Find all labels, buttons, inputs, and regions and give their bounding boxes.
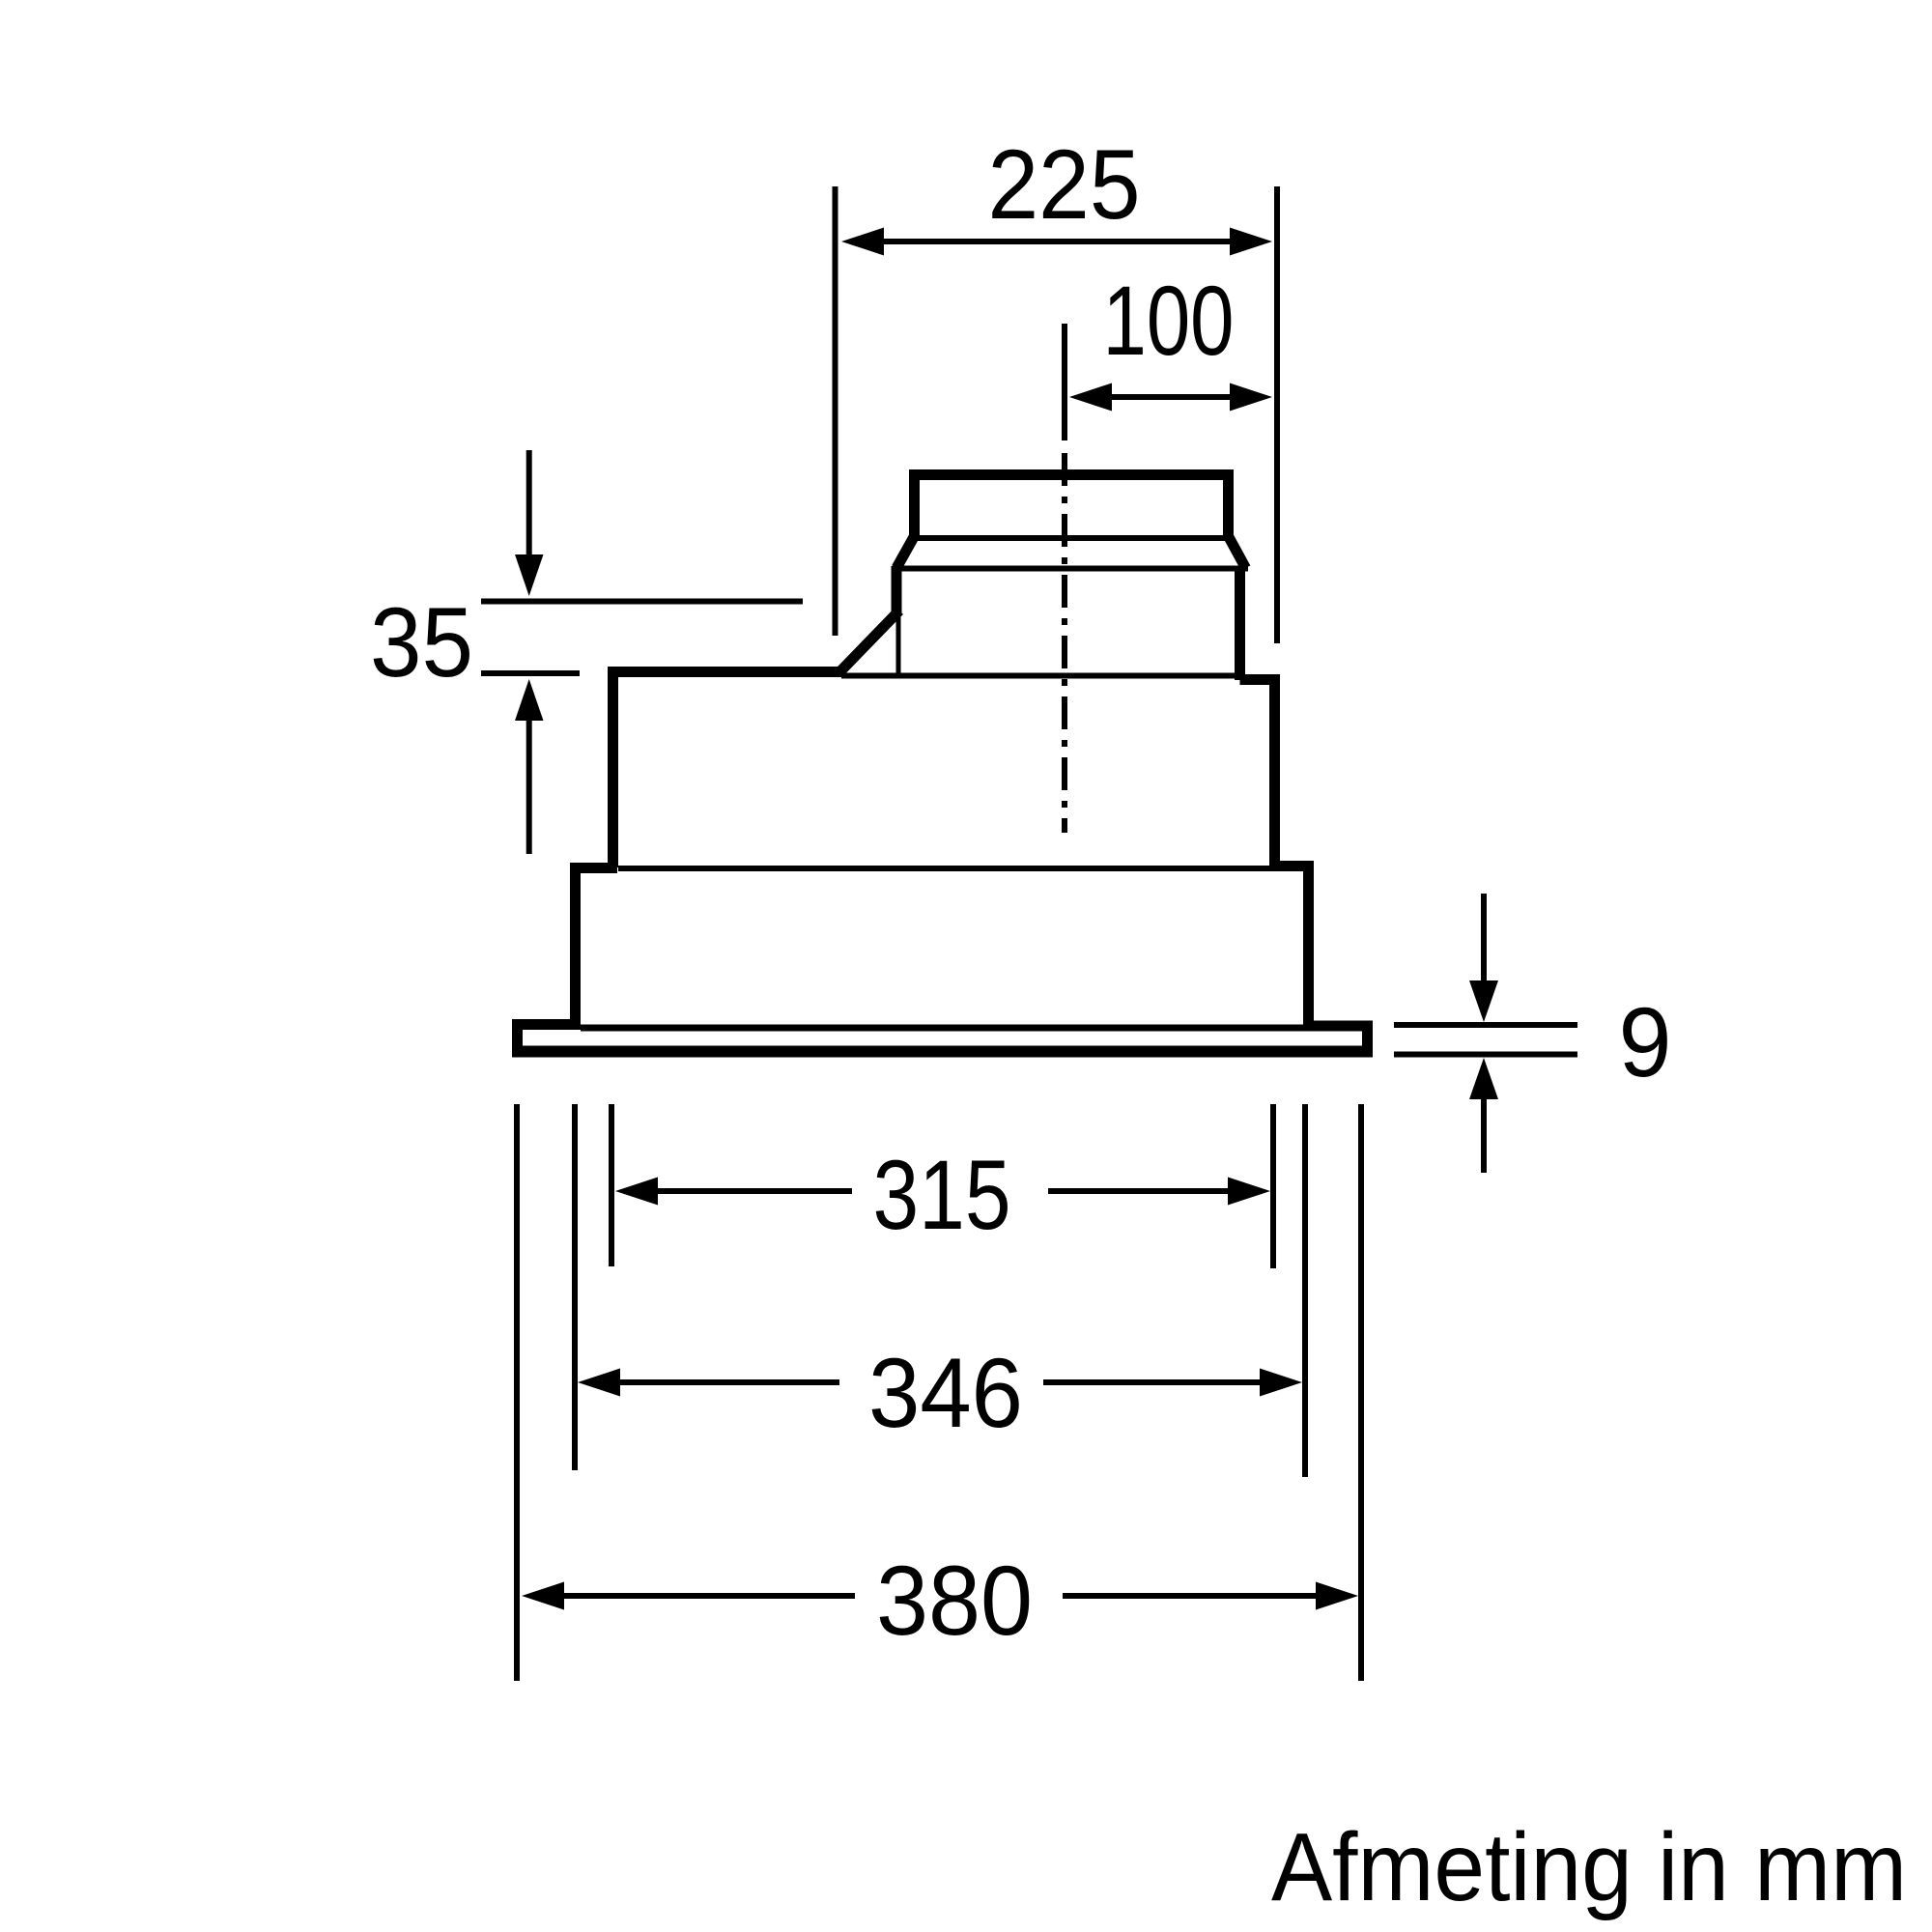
315 left extension line [609,1104,614,1266]
plate left cap and top left [518,1025,582,1052]
duct base right edge [1235,566,1245,680]
35 down arrowhead [515,554,544,596]
315 dimension left segment [652,1188,852,1194]
svg-text:35: 35 [370,587,473,697]
svg-text:315: 315 [873,1140,1011,1250]
centerline solid upper segment [1062,324,1067,440]
315 right arrowhead [1228,1178,1270,1206]
380 right extension line [1358,1104,1364,1681]
380 left arrowhead [522,1582,564,1610]
svg-text:100: 100 [1103,266,1235,376]
svg-text:380: 380 [876,1546,1033,1656]
plate bottom line [512,1046,1373,1058]
346 right extension line [1302,1104,1308,1477]
fold diagonal [838,611,899,673]
duct base left edge [892,566,902,612]
step thin line [618,866,1269,871]
100 right arrowhead [1230,384,1272,412]
9 up arrowhead [1469,1058,1498,1099]
315 left arrowhead [615,1178,658,1206]
225 left extension line [833,186,838,636]
100 left arrowhead [1069,384,1112,412]
100 dimension line [1106,394,1235,400]
centerline dash-dot [1062,453,1067,833]
main body left edge and top edge [613,672,842,868]
main body top thin line [841,673,1240,679]
svg-text:225: 225 [988,129,1141,240]
315 dimension right segment [1048,1188,1234,1194]
9 down arrowhead [1469,980,1498,1022]
duct flange line [894,566,1248,572]
346 right arrowhead [1260,1369,1302,1397]
380 right arrowhead [1316,1582,1358,1610]
346 dimension left segment [614,1379,839,1385]
225 dimension line [879,239,1235,244]
225 left arrowhead [841,228,884,256]
35 up arrowhead [515,679,544,721]
left step and lower box left edge [576,868,618,1022]
right step and lower box right edge [1269,867,1309,1023]
380 dimension left segment [558,1593,855,1599]
35 upper reference line [481,599,803,605]
svg-text:346: 346 [868,1338,1023,1448]
346 left arrowhead [578,1369,620,1397]
9 up arrow shaft [1481,1097,1487,1173]
225 right arrowhead [1230,228,1272,256]
svg-text:Afmeting in mm: Afmeting in mm [1271,1813,1907,1921]
9 dim bottom line [1394,1052,1577,1058]
346 dimension right segment [1043,1379,1267,1385]
plate top middle thin line [581,1025,1304,1032]
225 and 100 right extension line [1274,186,1280,643]
svg-text:9: 9 [1619,987,1672,1097]
duct collar outline [896,475,1246,569]
duct base left thin edge [896,612,901,676]
35 down arrow shaft [526,450,532,558]
380 dimension right segment [1063,1593,1323,1599]
plate top right and right cap [1303,1026,1368,1052]
35 up arrow shaft [526,719,532,854]
9 down arrow shaft [1481,894,1487,983]
main body right connector and right edge [1240,680,1275,867]
380 left extension line [514,1104,520,1681]
346 left extension line [572,1104,578,1470]
9 dim top line [1394,1022,1577,1028]
duct collar inner bottom line [917,535,1226,541]
35 lower reference line [481,670,580,676]
315 right extension line [1270,1104,1276,1268]
